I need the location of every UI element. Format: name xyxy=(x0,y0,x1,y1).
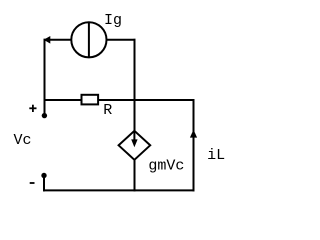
svg-text:gmVc: gmVc xyxy=(148,157,184,174)
wire: bottom rail xyxy=(44,189,194,191)
resistor R xyxy=(82,95,99,105)
wire: top-left horizontal from arrow corner to Ig left terminal xyxy=(45,39,72,41)
wire: Ig right terminal to top corner xyxy=(107,39,135,41)
current source Ig (circle with diameter bar) xyxy=(71,22,106,57)
svg-text:R: R xyxy=(103,102,112,119)
node: - terminal junction dot xyxy=(41,173,46,178)
arrow inside gmVc pointing down xyxy=(131,131,137,148)
node: + terminal junction dot xyxy=(42,113,47,118)
wire: resistor R right side to top-right corner xyxy=(99,99,194,101)
wire: - terminal dot down to bottom rail xyxy=(43,176,45,190)
wire: gmVc bottom terminal to bottom rail xyxy=(134,160,136,191)
label: + polarity mark xyxy=(29,105,36,112)
arrowhead: iL current direction pointing up xyxy=(190,130,197,138)
label: - polarity mark xyxy=(30,182,35,184)
wire: right branch vertical carrying iL xyxy=(193,100,195,190)
wire: vertical from top corner down through crossing to gmVc top xyxy=(134,40,136,131)
dependent current source gmVc (diamond) xyxy=(119,131,151,160)
wire: left vertical from arrow corner down to + terminal xyxy=(44,40,46,114)
wire: horizontal node wire from + branch to resistor R xyxy=(45,99,82,101)
arrowhead: current direction at top-left pointing left xyxy=(44,36,51,44)
svg-text:Vc: Vc xyxy=(14,132,32,149)
svg-text:Ig: Ig xyxy=(104,12,122,29)
svg-text:iL: iL xyxy=(207,147,225,164)
